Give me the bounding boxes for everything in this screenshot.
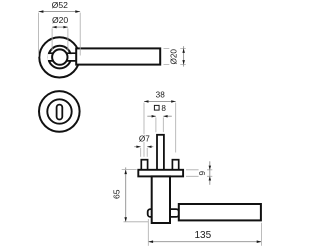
spindle (square 8): [157, 135, 164, 171]
dimension square-8 label: [154, 105, 159, 110]
svg-text:Ø52: Ø52: [52, 0, 68, 10]
lever grip bar (front): [76, 48, 160, 64]
dimension O7 extension lines: [140, 148, 142, 157]
svg-text:65: 65: [111, 189, 121, 199]
right screw post: [172, 160, 178, 171]
dimension O20 extension lines: [51, 28, 53, 50]
dimension 135 extension lines: [147, 219, 149, 246]
escutcheon inner circle: [47, 99, 71, 123]
dimension 65 extension lines: [122, 169, 137, 171]
neck circle O20: [52, 49, 67, 64]
svg-text:Ø20: Ø20: [170, 49, 179, 65]
neck band (horizontal slot through collar): [48, 54, 77, 60]
dimension O20 vertical line: [183, 46, 185, 66]
grip bar (side): [179, 204, 261, 220]
dimension O52 extension lines: [38, 13, 40, 57]
rose circle O52: [39, 37, 79, 77]
dimension O7 line: [134, 146, 141, 148]
svg-text:Ø20: Ø20: [52, 15, 68, 25]
dimension 135 line: [148, 241, 261, 243]
collar ring outer: [48, 46, 71, 69]
dimension 38 extension lines: [143, 103, 145, 157]
svg-text:38: 38: [156, 91, 166, 100]
neck cylinder (side): [152, 176, 170, 223]
escutcheon outer circle: [39, 91, 80, 132]
svg-text:Ø7: Ø7: [139, 135, 150, 144]
svg-text:135: 135: [194, 230, 211, 241]
dimension square-8 extension lines: [155, 117, 157, 132]
O52 right extension line (over bar): [79, 13, 81, 56]
svg-text:8: 8: [161, 104, 166, 113]
dimension 9 text: [199, 167, 207, 179]
svg-text:9: 9: [198, 170, 207, 175]
dimension 9 extension lines: [186, 169, 212, 171]
left screw post: [141, 160, 147, 171]
dimension 65 line: [125, 167, 127, 221]
rose plate (side): [138, 170, 183, 177]
dimension O20 line: [52, 26, 68, 28]
dimension 38 line: [144, 100, 176, 102]
dimension O52 line: [39, 11, 81, 13]
dimension O7 text: [139, 134, 150, 142]
keyhole slot: [57, 105, 63, 120]
dimension 9 line: [209, 161, 211, 185]
dimension square-8 line: [147, 115, 156, 117]
dimension O20 (side, vertical at bar end) extension lines: [164, 47, 186, 49]
lever crank band (side): [148, 209, 179, 217]
